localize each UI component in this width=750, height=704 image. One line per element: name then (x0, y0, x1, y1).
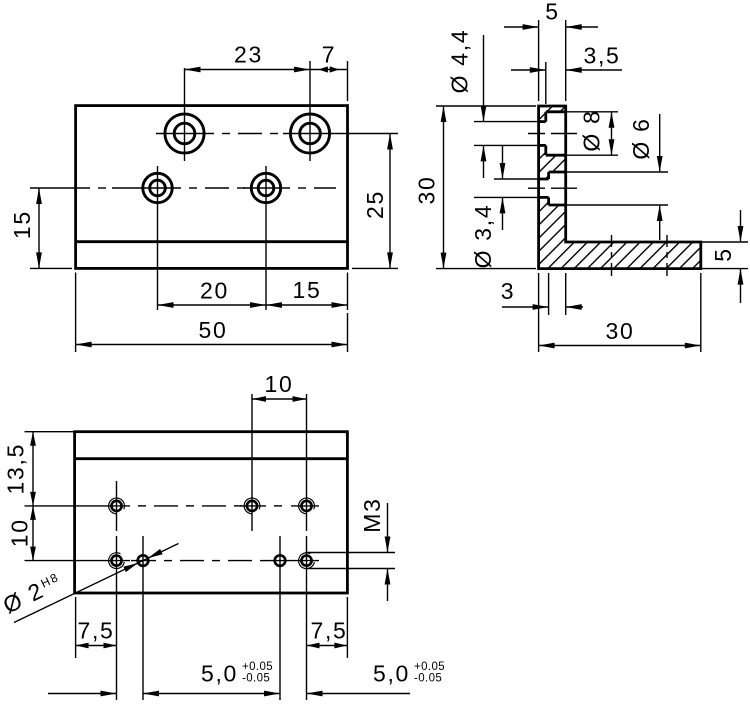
side view Ø6 counterbore edges (549, 172, 566, 205)
top view T1 vertical centerline (116, 481, 118, 531)
svg-text:23: 23 (234, 42, 263, 68)
dimension 23 (hole spacing, front view top) (185, 42, 311, 73)
front view H4 vertical centerline (265, 166, 267, 310)
side view flange hole centerline A (611, 235, 613, 276)
side view Ø8 counterbore edges (546, 112, 566, 155)
dimension 30 (side view left height) (414, 106, 537, 269)
front view counterbored hole H2 (Ø8/Ø4.4) upper-right (290, 114, 329, 153)
side view Ø4.4 hole edges (539, 122, 546, 146)
top view M3 hole T3 (row1 right) (299, 498, 315, 514)
side view Ø3.4 hole edges (539, 179, 549, 197)
svg-text:3,5: 3,5 (583, 43, 620, 69)
dimension 3,5 (counterbore depth, side view) (511, 43, 622, 105)
dimension 5,0 +0.05/-0.05 (left pin pitch) (48, 661, 280, 697)
side view flange hole centerline B (666, 235, 668, 276)
top view row2 centerline (25, 560, 320, 562)
top view row1 centerline (25, 505, 320, 507)
svg-text:Ø 3,4: Ø 3,4 (470, 204, 496, 269)
top view M3 hole T1 (row1 left) (109, 498, 125, 514)
side view hatching (section) (430, 100, 710, 275)
dimension M3 (thread callout, top view right) (307, 497, 396, 601)
front view counterbored hole H1 (Ø8/Ø4.4) upper-left (165, 114, 204, 153)
front view H2 vertical centerline (309, 61, 311, 161)
dimension 30 (side view bottom width) (539, 273, 701, 352)
dimension 10 (top view top hole spacing) (252, 371, 307, 402)
svg-text:13,5: 13,5 (3, 443, 29, 495)
side view upper hole centerline tick (528, 133, 577, 135)
front view counterbored hole H4 (Ø6/Ø3.4) lower-right (251, 173, 280, 202)
front view upper hole row centerline (156, 133, 398, 135)
top view column 306.5 lower centerline/extension (306, 536, 308, 700)
top view column 280 centerline/extension (279, 536, 281, 700)
svg-text:30: 30 (606, 318, 635, 344)
svg-text:+0.05: +0.05 (414, 661, 445, 673)
svg-text:7,5: 7,5 (77, 618, 114, 644)
svg-text:10: 10 (7, 518, 33, 547)
dimension Ø6 (counterbore, side view right) (549, 114, 668, 240)
front view H3 vertical centerline (157, 166, 159, 310)
svg-text:5: 5 (545, 0, 560, 25)
svg-text:7,5: 7,5 (310, 618, 347, 644)
dimension 7,5 (top view bottom left) (76, 597, 117, 658)
top view plate outline (75, 432, 348, 593)
svg-text:10: 10 (265, 371, 294, 397)
svg-text:+0.05: +0.05 (242, 661, 273, 673)
top view Ø2 pin hole P2 (row2 right) (275, 555, 286, 566)
dimension 3 (counterbore depth, side view bottom) (501, 273, 583, 315)
leader Ø2 H8 (pin hole callout) (0, 544, 178, 623)
top view column 143 centerline/extension (142, 536, 144, 700)
dimension 20 (front view bottom, lower holes) (158, 278, 267, 308)
dimension 7 (front view top right) (310, 42, 348, 102)
dimension 10 (top view left row spacing) (7, 506, 36, 561)
dimension 7,5 (top view bottom right) (307, 597, 348, 658)
top view M3 hole T4 (row2 left) (109, 553, 125, 569)
front view plate outline (76, 106, 348, 269)
dimension 13,5 (top view left) (3, 432, 76, 506)
top view column 116.5 lower centerline/extension (116, 536, 118, 700)
dimension Ø8 (counterbore, side view right) (546, 109, 618, 155)
top view M3 hole T2 (row1 mid) (244, 498, 260, 514)
svg-text:50: 50 (199, 317, 228, 343)
dimension 5 (flange thickness, side view far right) (701, 210, 748, 303)
dimension Ø3,4 (through hole, side view) (470, 146, 539, 268)
front view lower hole row centerline (30, 187, 336, 189)
top view T3 vertical centerline (306, 394, 308, 531)
top view wall edge line (75, 457, 348, 460)
dimension 5,0 +0.05/-0.05 (right pin pitch) (307, 661, 446, 697)
dimension 15 (front view left height) (9, 188, 72, 268)
dimension Ø4,4 (through hole, side view) (447, 29, 539, 178)
svg-text:Ø 4,4: Ø 4,4 (447, 29, 473, 94)
svg-text:-0.05: -0.05 (242, 673, 270, 685)
svg-text:20: 20 (200, 278, 229, 304)
svg-text:7: 7 (322, 42, 337, 68)
dimension 25 (front view right height) (352, 134, 398, 269)
front view H1 vertical centerline (184, 68, 186, 161)
svg-text:5,0: 5,0 (201, 661, 238, 687)
side view lower hole centerline tick (528, 187, 577, 189)
front view flange edge line (76, 240, 348, 243)
side view L-profile outline (539, 106, 701, 269)
top view T2 vertical centerline (251, 394, 253, 531)
svg-text:15: 15 (293, 277, 322, 303)
dimension 5 (wall thickness, side view top) (504, 0, 598, 101)
svg-text:3: 3 (501, 278, 516, 304)
svg-text:30: 30 (414, 176, 440, 205)
svg-text:5: 5 (710, 247, 736, 262)
top view M3 hole T5 (row2 right) (299, 553, 315, 569)
svg-text:Ø 6: Ø 6 (628, 117, 654, 159)
svg-text:15: 15 (9, 210, 35, 239)
top view Ø2 pin hole P1 (row2 left) (138, 555, 149, 566)
svg-text:Ø 8: Ø 8 (579, 109, 605, 151)
front view counterbored hole H3 (Ø6/Ø3.4) lower-left (143, 173, 172, 202)
svg-text:-0.05: -0.05 (414, 673, 442, 685)
svg-text:25: 25 (362, 190, 388, 219)
svg-text:5,0: 5,0 (373, 661, 410, 687)
dimension 50 (front view overall width) (76, 273, 348, 353)
svg-text:M3: M3 (359, 497, 385, 532)
dimension 15 (front view bottom right) (266, 273, 348, 311)
